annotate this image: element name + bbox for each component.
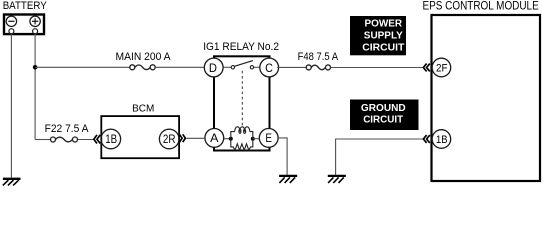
svg-text:IG1 RELAY No.2: IG1 RELAY No.2 (203, 41, 279, 53)
svg-text:CIRCUIT: CIRCUIT (362, 43, 404, 54)
svg-text:A: A (210, 131, 219, 145)
svg-text:D: D (209, 61, 217, 75)
relay terminal E (259, 129, 278, 148)
svg-text:1B: 1B (436, 134, 448, 146)
relay coil (inductor branch) (231, 127, 253, 139)
svg-text:F48 7.5 A: F48 7.5 A (298, 51, 339, 63)
wire D to switch contact (221, 66, 231, 68)
wire relay E to ground (277, 138, 287, 175)
connector marks at EPS 1B (423, 135, 429, 143)
wire F22 row to BCM 1B (35, 139, 51, 141)
battery negative post (9, 29, 14, 34)
wire battery positive down to F22 row (34, 34, 36, 140)
svg-text:1B: 1B (105, 134, 117, 146)
BCM terminal 2R (159, 129, 179, 149)
ground (EPS ground circuit) (328, 176, 346, 183)
ground (relay E) (279, 176, 297, 183)
wire A to coil node (223, 138, 231, 140)
wire BCM 2R to relay A (186, 137, 206, 139)
wire battery negative to ground (10, 34, 12, 178)
svg-text:C: C (265, 61, 273, 75)
svg-text:E: E (265, 131, 272, 145)
svg-text:BATTERY: BATTERY (3, 0, 47, 12)
wire F22 to BCM connector (77, 139, 93, 141)
svg-text:EPS CONTROL MODULE: EPS CONTROL MODULE (423, 0, 539, 13)
svg-text:2F: 2F (436, 63, 448, 75)
BCM terminal 1B (101, 129, 121, 149)
node coil left (229, 137, 233, 141)
fuse MAIN 200 A (116, 51, 171, 70)
svg-text:F22 7.5 A: F22 7.5 A (45, 123, 90, 135)
node junction at B+ (33, 65, 38, 70)
svg-text:2R: 2R (163, 134, 176, 146)
POWER SUPPLY CIRCUIT box (350, 16, 406, 55)
connector marks at 2F (423, 64, 429, 72)
node coil right (251, 137, 255, 141)
wire relay C to F48 fuse (277, 66, 306, 68)
svg-text:CIRCUIT: CIRCUIT (363, 115, 403, 126)
wire F48 to EPS 2F (330, 67, 423, 69)
GROUND CIRCUIT box (350, 100, 419, 131)
svg-text:SUPPLY: SUPPLY (364, 31, 403, 42)
wire switch contact to C (253, 66, 260, 68)
connector marks at BCM 1B (94, 135, 100, 144)
relay terminal A (205, 129, 224, 148)
svg-text:BCM: BCM (132, 102, 154, 114)
battery positive terminal (30, 16, 40, 26)
relay coil resistor branch (231, 139, 253, 151)
battery negative terminal (6, 16, 16, 26)
relay IG1 No.2 box (214, 56, 270, 150)
wire MAIN fuse to relay D (155, 66, 204, 68)
svg-text:MAIN 200 A: MAIN 200 A (116, 51, 171, 63)
wire B+ junction to MAIN fuse (35, 66, 130, 68)
battery case (4, 15, 44, 35)
ground (battery) (3, 179, 21, 186)
svg-text:POWER: POWER (365, 19, 403, 30)
EPS terminal 2F (432, 58, 451, 77)
relay terminal C (260, 58, 279, 77)
fuse F48 7.5 A (298, 51, 339, 70)
BCM box (101, 116, 179, 158)
fuse F22 7.5 A (45, 123, 90, 142)
svg-text:GROUND: GROUND (361, 103, 406, 114)
wire EPS 1B to ground (336, 139, 424, 175)
wire coil node to E (253, 138, 260, 140)
EPS terminal 1B (432, 130, 451, 149)
relay switch contacts (231, 66, 234, 69)
relay switch blade (234, 61, 253, 67)
EPS control module box (432, 15, 541, 181)
connector marks at BCM 2R (179, 134, 185, 142)
battery positive post (33, 29, 38, 34)
relay switch dashed actuator line (241, 71, 243, 127)
relay terminal D (204, 58, 223, 77)
